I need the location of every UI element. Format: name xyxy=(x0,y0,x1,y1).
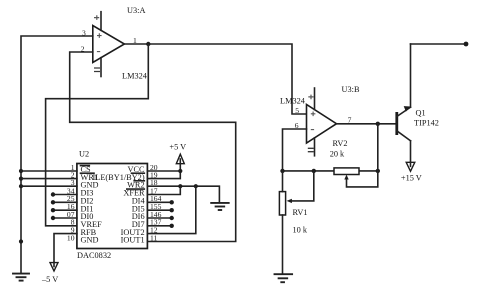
wire IOUT2 to WR2 net xyxy=(147,186,195,233)
svg-text:DAC0832: DAC0832 xyxy=(77,251,111,260)
U3:B V+ power pin xyxy=(308,88,314,110)
ground (left, analog ground) xyxy=(13,274,29,281)
svg-text:11: 11 xyxy=(150,233,158,242)
wire U2 DI2 stub xyxy=(53,201,77,203)
node WR2/XFER junction xyxy=(178,184,182,188)
U2 left pin numbers xyxy=(67,163,75,243)
node output terminal xyxy=(464,42,469,47)
wire U2 WR2 to ground xyxy=(147,186,219,202)
node DI6 terminal xyxy=(170,216,174,220)
wire feedback vertical xyxy=(377,124,379,171)
svg-text:IOUT1: IOUT1 xyxy=(121,236,145,245)
svg-text:U3:A: U3:A xyxy=(127,6,145,15)
U3:A V- power pin 11 xyxy=(94,58,101,77)
wire U3:B output to Q1 base xyxy=(337,123,396,125)
wire U3:A output xyxy=(124,44,306,114)
U3:B V- power pin xyxy=(308,138,315,156)
node WR2/IOUT2 junction xyxy=(194,184,198,188)
node DI2 terminal xyxy=(51,200,55,204)
svg-text:U2: U2 xyxy=(79,150,89,159)
potentiometer RV2 20k body xyxy=(330,139,359,175)
U2 left pin names xyxy=(81,165,103,245)
wire U2 VCC stub xyxy=(147,170,180,172)
U3:A V+ power pin 4 xyxy=(94,12,101,31)
wire U3:B inverting input to RV1/RV2 net xyxy=(283,129,307,171)
wire U2 DI7 stub xyxy=(147,225,171,227)
wire U2 DI3 stub xyxy=(53,194,77,196)
svg-text:LM324: LM324 xyxy=(122,72,148,81)
node VCC junction xyxy=(178,169,182,173)
node DI7 terminal xyxy=(170,224,174,228)
op-amp U3:B xyxy=(280,85,360,143)
svg-text:5: 5 xyxy=(295,106,299,115)
wire RV2 bottom net xyxy=(283,170,378,172)
transistor Q1 TIP142 xyxy=(397,106,439,141)
node output/feedback junction xyxy=(376,122,380,126)
wire U2 pin2 WR1 stub xyxy=(21,178,77,180)
node junction dots on ground net at U2 pins 1,2,3,10 xyxy=(19,169,23,173)
wire U2 DI6 stub xyxy=(147,217,171,219)
wire U3:A non-inverting input net (ground net) xyxy=(21,36,93,273)
wire U2 ILE stub xyxy=(147,164,180,179)
ground (mid, at WR2/XFER net) xyxy=(211,203,229,210)
ground (below RV1) xyxy=(275,274,293,282)
wire U3:A inverting input to IOUT1 feedback xyxy=(70,52,236,242)
svg-text:10 k: 10 k xyxy=(293,226,308,235)
wire U2 DI5 stub xyxy=(147,209,171,211)
DAC U2 DAC0832 xyxy=(77,150,147,261)
node DI1 terminal xyxy=(51,208,55,212)
wire U2 pin3 GND stub xyxy=(21,185,77,187)
RV1 wiper arrow xyxy=(287,171,314,203)
power +15V arrow xyxy=(401,162,422,182)
node RV2 left junction xyxy=(280,169,284,173)
wire U2 DI4 stub xyxy=(147,201,171,203)
node DI5 terminal xyxy=(170,208,174,212)
wire U2 pin1 CS stub xyxy=(21,170,77,172)
power -5V arrow xyxy=(41,263,58,284)
wire top-right output xyxy=(411,43,467,45)
potentiometer RV1 10k body xyxy=(279,192,307,235)
node DI3 terminal xyxy=(51,192,55,196)
node DI4 terminal xyxy=(170,200,174,204)
wire U2 RFB to -5V xyxy=(54,234,77,263)
node output junction xyxy=(146,42,150,46)
wire U2 DI1 stub xyxy=(53,209,77,211)
svg-text:+15 V: +15 V xyxy=(401,173,422,182)
wire output to VREF xyxy=(46,44,149,226)
svg-text:–5 V: –5 V xyxy=(41,275,58,284)
wire Q1 upper lead to output node xyxy=(410,44,412,107)
wire RV1 top xyxy=(282,171,284,192)
node RV2 right junction xyxy=(376,169,380,173)
wire Q1 lower lead to +15V xyxy=(410,141,412,162)
svg-text:10: 10 xyxy=(67,233,75,242)
svg-text:GND: GND xyxy=(81,236,99,245)
wire RV1 bottom to ground xyxy=(282,215,284,274)
svg-text:+5 V: +5 V xyxy=(169,142,186,151)
svg-text:20 k: 20 k xyxy=(330,150,345,159)
svg-text:TIP142: TIP142 xyxy=(414,118,439,127)
wire XFER to WR2 net xyxy=(147,186,180,194)
svg-text:U3:B: U3:B xyxy=(342,85,360,94)
svg-text:Q1: Q1 xyxy=(416,109,426,118)
power +5V arrow xyxy=(169,142,186,163)
node RV1 wiper junction xyxy=(312,169,316,173)
RV2 wiper arrow and loop to right terminal xyxy=(344,171,378,187)
svg-text:RV2: RV2 xyxy=(333,139,348,148)
wire U2 DI0 stub xyxy=(53,217,77,219)
node DI0 terminal xyxy=(51,216,55,220)
U2 right pin names xyxy=(93,165,146,245)
svg-text:LM324: LM324 xyxy=(280,97,306,106)
U2 right pin numbers xyxy=(150,163,162,243)
svg-text:RV1: RV1 xyxy=(293,208,308,217)
op-amp U3:A xyxy=(81,6,148,81)
